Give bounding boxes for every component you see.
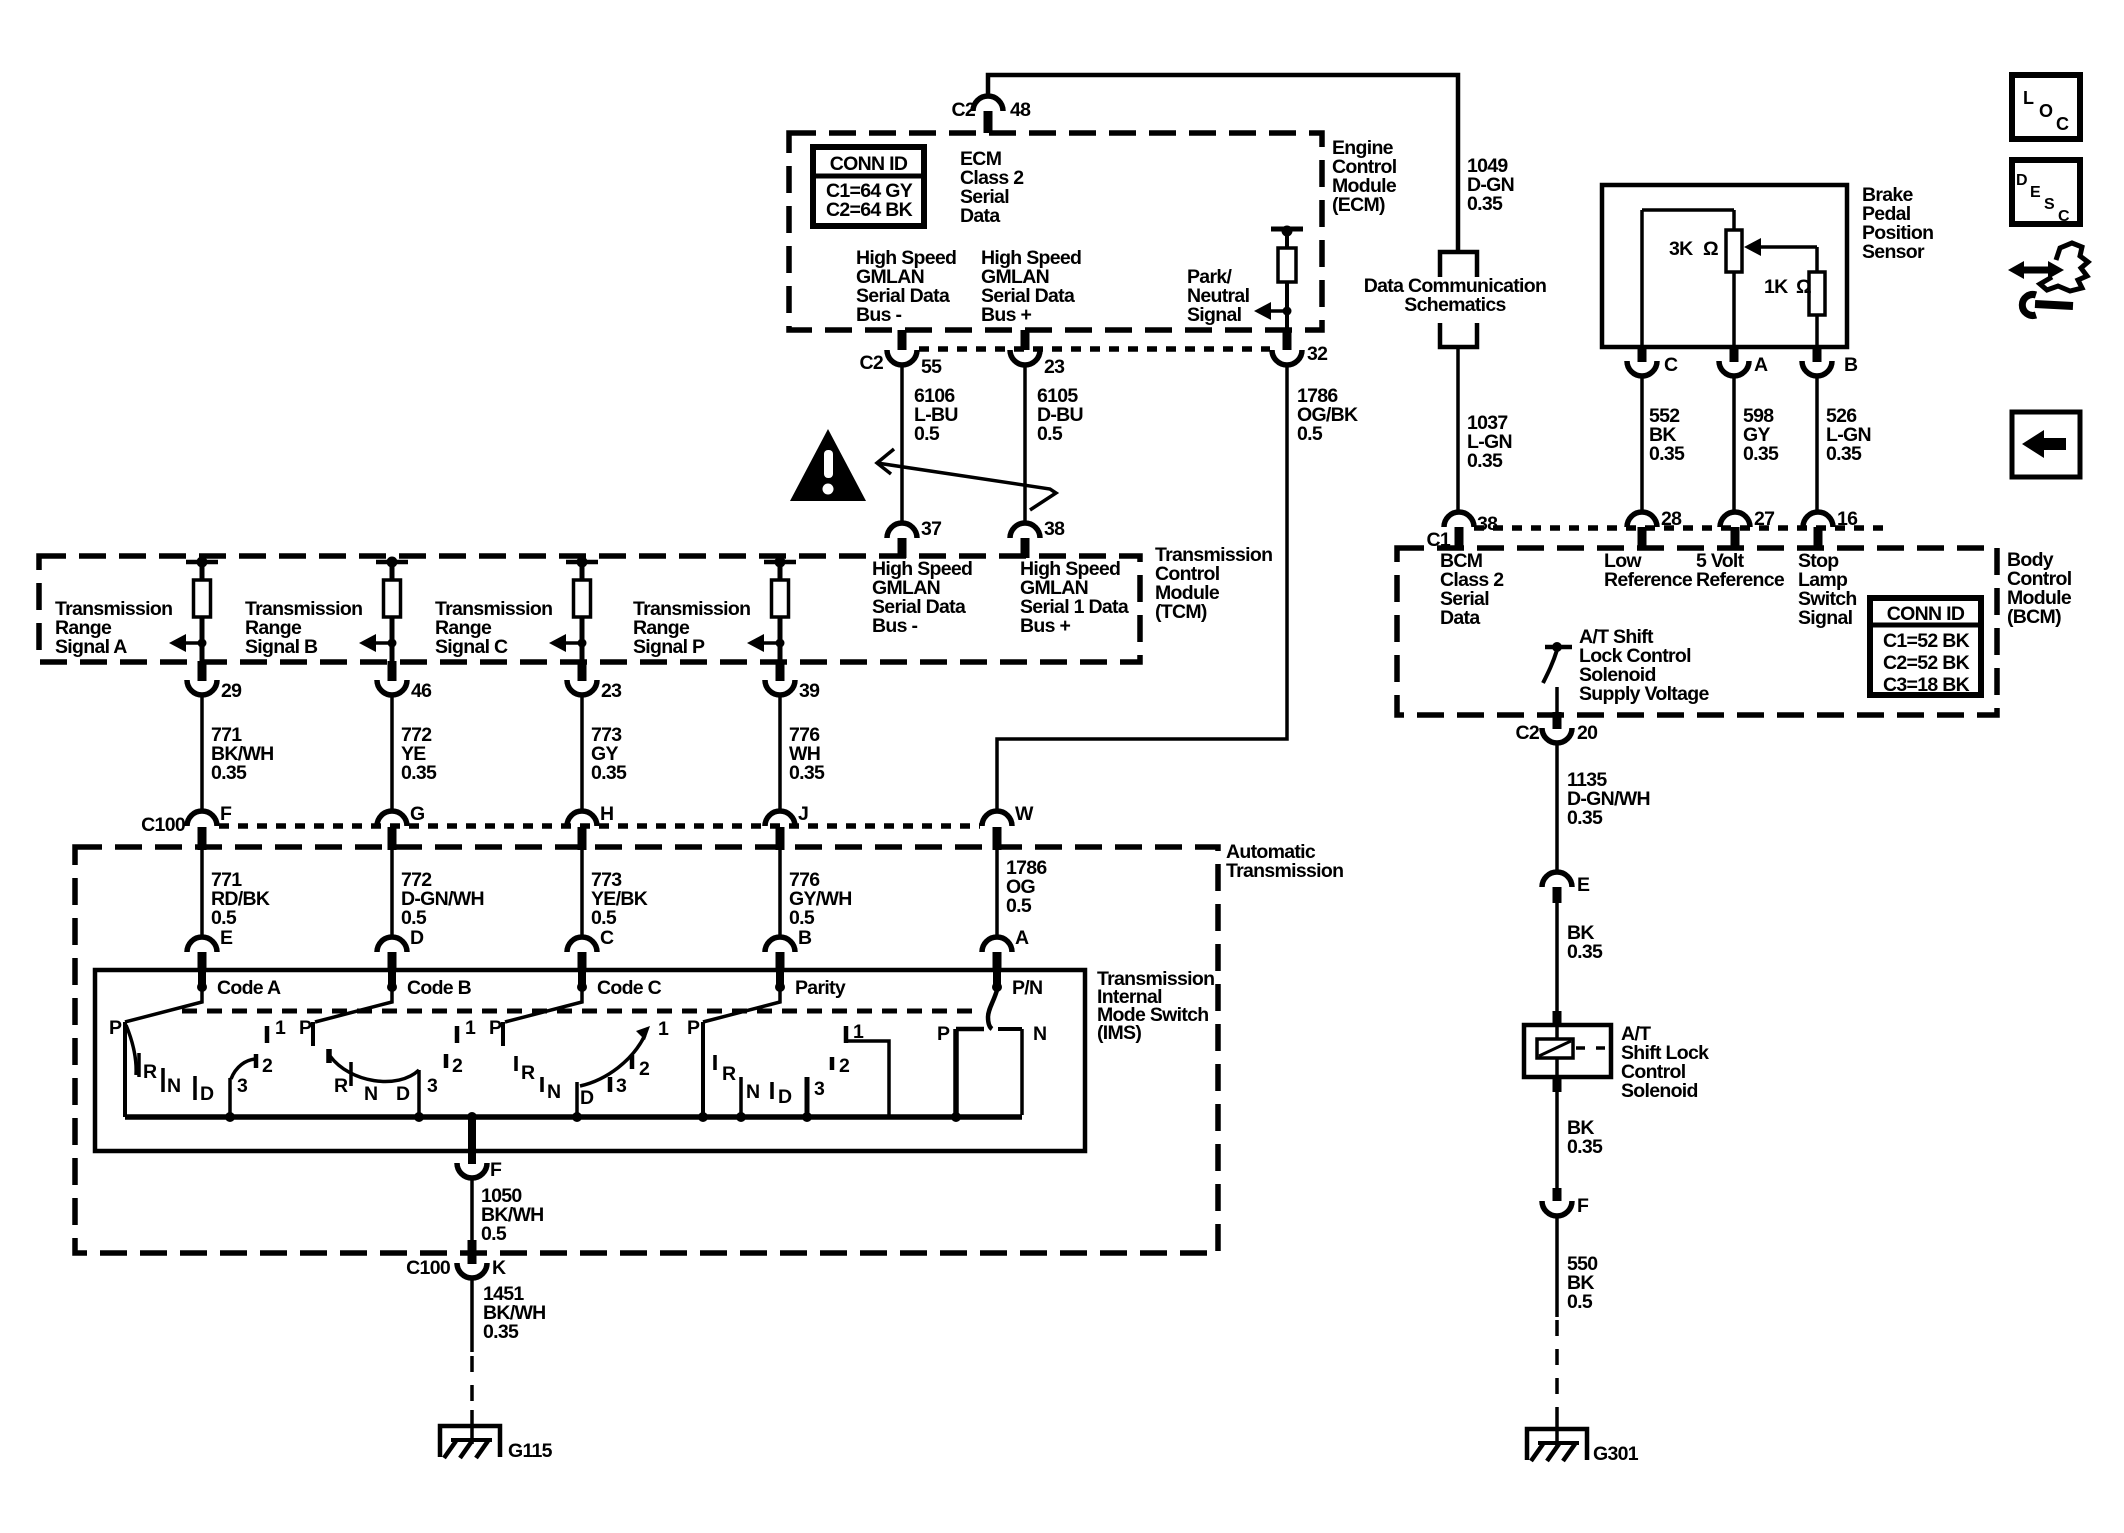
svg-text:0.5: 0.5: [789, 907, 815, 929]
svg-text:Parity: Parity: [795, 977, 846, 999]
svg-text:55: 55: [921, 356, 942, 378]
svg-text:D: D: [410, 927, 424, 949]
svg-text:C2=52 BK: C2=52 BK: [1883, 652, 1970, 674]
svg-text:C100: C100: [406, 1257, 451, 1279]
svg-text:D: D: [580, 1087, 594, 1109]
svg-text:J: J: [798, 803, 808, 825]
svg-text:C2: C2: [951, 99, 975, 121]
svg-text:N: N: [167, 1075, 180, 1097]
svg-text:C2: C2: [859, 352, 883, 374]
svg-text:23: 23: [601, 680, 622, 702]
svg-text:A: A: [1015, 927, 1029, 949]
svg-text:Data: Data: [960, 205, 1000, 227]
svg-text:L: L: [2023, 88, 2034, 108]
svg-text:Bus -: Bus -: [856, 304, 901, 326]
svg-text:38: 38: [1477, 513, 1498, 535]
svg-text:C1=52 BK: C1=52 BK: [1883, 630, 1970, 652]
svg-text:0.35: 0.35: [1649, 443, 1685, 465]
svg-text:1: 1: [275, 1017, 286, 1039]
svg-text:3K: 3K: [1669, 238, 1693, 260]
svg-text:G301: G301: [1593, 1443, 1639, 1465]
svg-text:0.35: 0.35: [483, 1321, 519, 1343]
svg-text:3: 3: [616, 1075, 627, 1097]
svg-text:2: 2: [262, 1055, 273, 1077]
svg-text:Signal B: Signal B: [245, 636, 318, 658]
svg-text:48: 48: [1010, 99, 1031, 121]
svg-text:0.5: 0.5: [914, 423, 940, 445]
svg-text:CONN ID: CONN ID: [1887, 603, 1965, 625]
svg-text:Supply Voltage: Supply Voltage: [1579, 683, 1709, 705]
svg-text:C2: C2: [1515, 722, 1539, 744]
svg-text:D: D: [2016, 172, 2027, 189]
svg-text:B: B: [798, 927, 812, 949]
svg-text:37: 37: [921, 518, 941, 540]
svg-text:C2=64 BK: C2=64 BK: [826, 199, 913, 221]
svg-text:D: D: [396, 1083, 410, 1105]
svg-text:N: N: [547, 1081, 560, 1103]
svg-text:R: R: [334, 1075, 348, 1097]
svg-text:0.35: 0.35: [211, 762, 247, 784]
svg-text:(IMS): (IMS): [1097, 1022, 1141, 1044]
svg-text:1: 1: [658, 1018, 669, 1040]
svg-text:Sensor: Sensor: [1862, 241, 1925, 263]
svg-text:R: R: [143, 1061, 157, 1083]
svg-text:1K: 1K: [1764, 276, 1788, 298]
svg-text:K: K: [492, 1257, 506, 1279]
svg-text:N: N: [1033, 1023, 1046, 1045]
svg-text:N: N: [364, 1083, 377, 1105]
svg-text:P: P: [937, 1023, 950, 1045]
svg-text:CONN ID: CONN ID: [830, 153, 908, 175]
svg-text:C: C: [2058, 208, 2070, 225]
svg-text:2: 2: [452, 1055, 463, 1077]
svg-text:N: N: [746, 1081, 759, 1103]
svg-text:F: F: [490, 1159, 502, 1181]
svg-text:Bus +: Bus +: [1020, 615, 1070, 637]
svg-text:16: 16: [1837, 508, 1858, 530]
svg-text:Solenoid: Solenoid: [1621, 1080, 1698, 1102]
svg-text:0.35: 0.35: [1567, 1136, 1603, 1158]
svg-text:G: G: [410, 803, 424, 825]
svg-text:Ω: Ω: [1796, 276, 1811, 298]
svg-text:3: 3: [814, 1078, 825, 1100]
svg-text:Data: Data: [1440, 607, 1480, 629]
svg-text:0.5: 0.5: [1567, 1291, 1593, 1313]
svg-text:P: P: [299, 1017, 312, 1039]
svg-text:C100: C100: [141, 814, 186, 836]
svg-text:0.35: 0.35: [591, 762, 627, 784]
svg-text:Signal A: Signal A: [55, 636, 127, 658]
svg-text:(BCM): (BCM): [2007, 606, 2061, 628]
svg-text:D: D: [778, 1086, 792, 1108]
svg-text:Signal: Signal: [1798, 607, 1853, 629]
svg-text:P: P: [687, 1017, 700, 1039]
svg-text:1: 1: [465, 1017, 476, 1039]
svg-text:0.35: 0.35: [1826, 443, 1862, 465]
svg-text:0.5: 0.5: [1037, 423, 1063, 445]
svg-text:Bus -: Bus -: [872, 615, 917, 637]
svg-text:F: F: [220, 803, 232, 825]
svg-text:R: R: [722, 1063, 736, 1085]
svg-text:0.35: 0.35: [1743, 443, 1779, 465]
svg-text:Reference: Reference: [1696, 569, 1785, 591]
svg-text:0.5: 0.5: [481, 1223, 507, 1245]
svg-text:P/N: P/N: [1012, 977, 1042, 999]
svg-text:46: 46: [411, 680, 432, 702]
svg-text:0.5: 0.5: [211, 907, 237, 929]
svg-text:E: E: [220, 927, 233, 949]
svg-text:E: E: [1577, 874, 1590, 896]
svg-text:Signal P: Signal P: [633, 636, 705, 658]
svg-text:28: 28: [1661, 508, 1682, 530]
svg-text:G115: G115: [508, 1440, 553, 1462]
svg-text:Schematics: Schematics: [1404, 294, 1506, 316]
svg-text:3: 3: [427, 1075, 438, 1097]
svg-text:0.5: 0.5: [1297, 423, 1323, 445]
svg-text:0.35: 0.35: [1467, 193, 1503, 215]
svg-text:0.35: 0.35: [1567, 807, 1603, 829]
svg-text:0.35: 0.35: [1567, 941, 1603, 963]
svg-text:E: E: [2030, 184, 2041, 201]
svg-text:C3=18 BK: C3=18 BK: [1883, 674, 1970, 696]
svg-text:Ω: Ω: [1703, 238, 1718, 260]
svg-text:29: 29: [221, 680, 242, 702]
svg-text:Bus +: Bus +: [981, 304, 1031, 326]
svg-text:2: 2: [839, 1055, 850, 1077]
svg-text:38: 38: [1044, 518, 1065, 540]
svg-text:2: 2: [639, 1058, 650, 1080]
svg-text:A: A: [1754, 354, 1768, 376]
svg-text:R: R: [521, 1062, 535, 1084]
svg-text:W: W: [1015, 803, 1034, 825]
svg-text:39: 39: [799, 680, 820, 702]
svg-text:Code B: Code B: [407, 977, 472, 999]
svg-text:O: O: [2039, 101, 2053, 121]
svg-text:C: C: [2056, 114, 2069, 134]
svg-text:Signal: Signal: [1187, 304, 1242, 326]
svg-text:Code C: Code C: [597, 977, 662, 999]
svg-text:Signal C: Signal C: [435, 636, 508, 658]
svg-text:0.5: 0.5: [401, 907, 427, 929]
svg-text:23: 23: [1044, 356, 1065, 378]
svg-text:C: C: [1664, 354, 1678, 376]
svg-text:0.5: 0.5: [591, 907, 617, 929]
svg-text:F: F: [1577, 1195, 1589, 1217]
svg-text:20: 20: [1577, 722, 1598, 744]
svg-text:27: 27: [1754, 508, 1774, 530]
svg-text:P: P: [489, 1017, 502, 1039]
svg-text:32: 32: [1307, 343, 1328, 365]
svg-text:Code A: Code A: [217, 977, 281, 999]
svg-text:0.35: 0.35: [1467, 450, 1503, 472]
svg-text:B: B: [1844, 354, 1858, 376]
svg-text:(TCM): (TCM): [1155, 601, 1207, 623]
svg-text:0.35: 0.35: [789, 762, 825, 784]
svg-text:Reference: Reference: [1604, 569, 1693, 591]
svg-text:3: 3: [237, 1075, 248, 1097]
svg-text:S: S: [2044, 196, 2055, 213]
svg-text:P: P: [109, 1017, 122, 1039]
svg-text:C: C: [600, 927, 614, 949]
svg-text:0.35: 0.35: [401, 762, 437, 784]
svg-text:H: H: [600, 803, 613, 825]
svg-text:(ECM): (ECM): [1332, 194, 1385, 216]
svg-text:0.5: 0.5: [1006, 895, 1032, 917]
svg-text:D: D: [200, 1083, 214, 1105]
svg-text:Transmission: Transmission: [1226, 860, 1343, 882]
